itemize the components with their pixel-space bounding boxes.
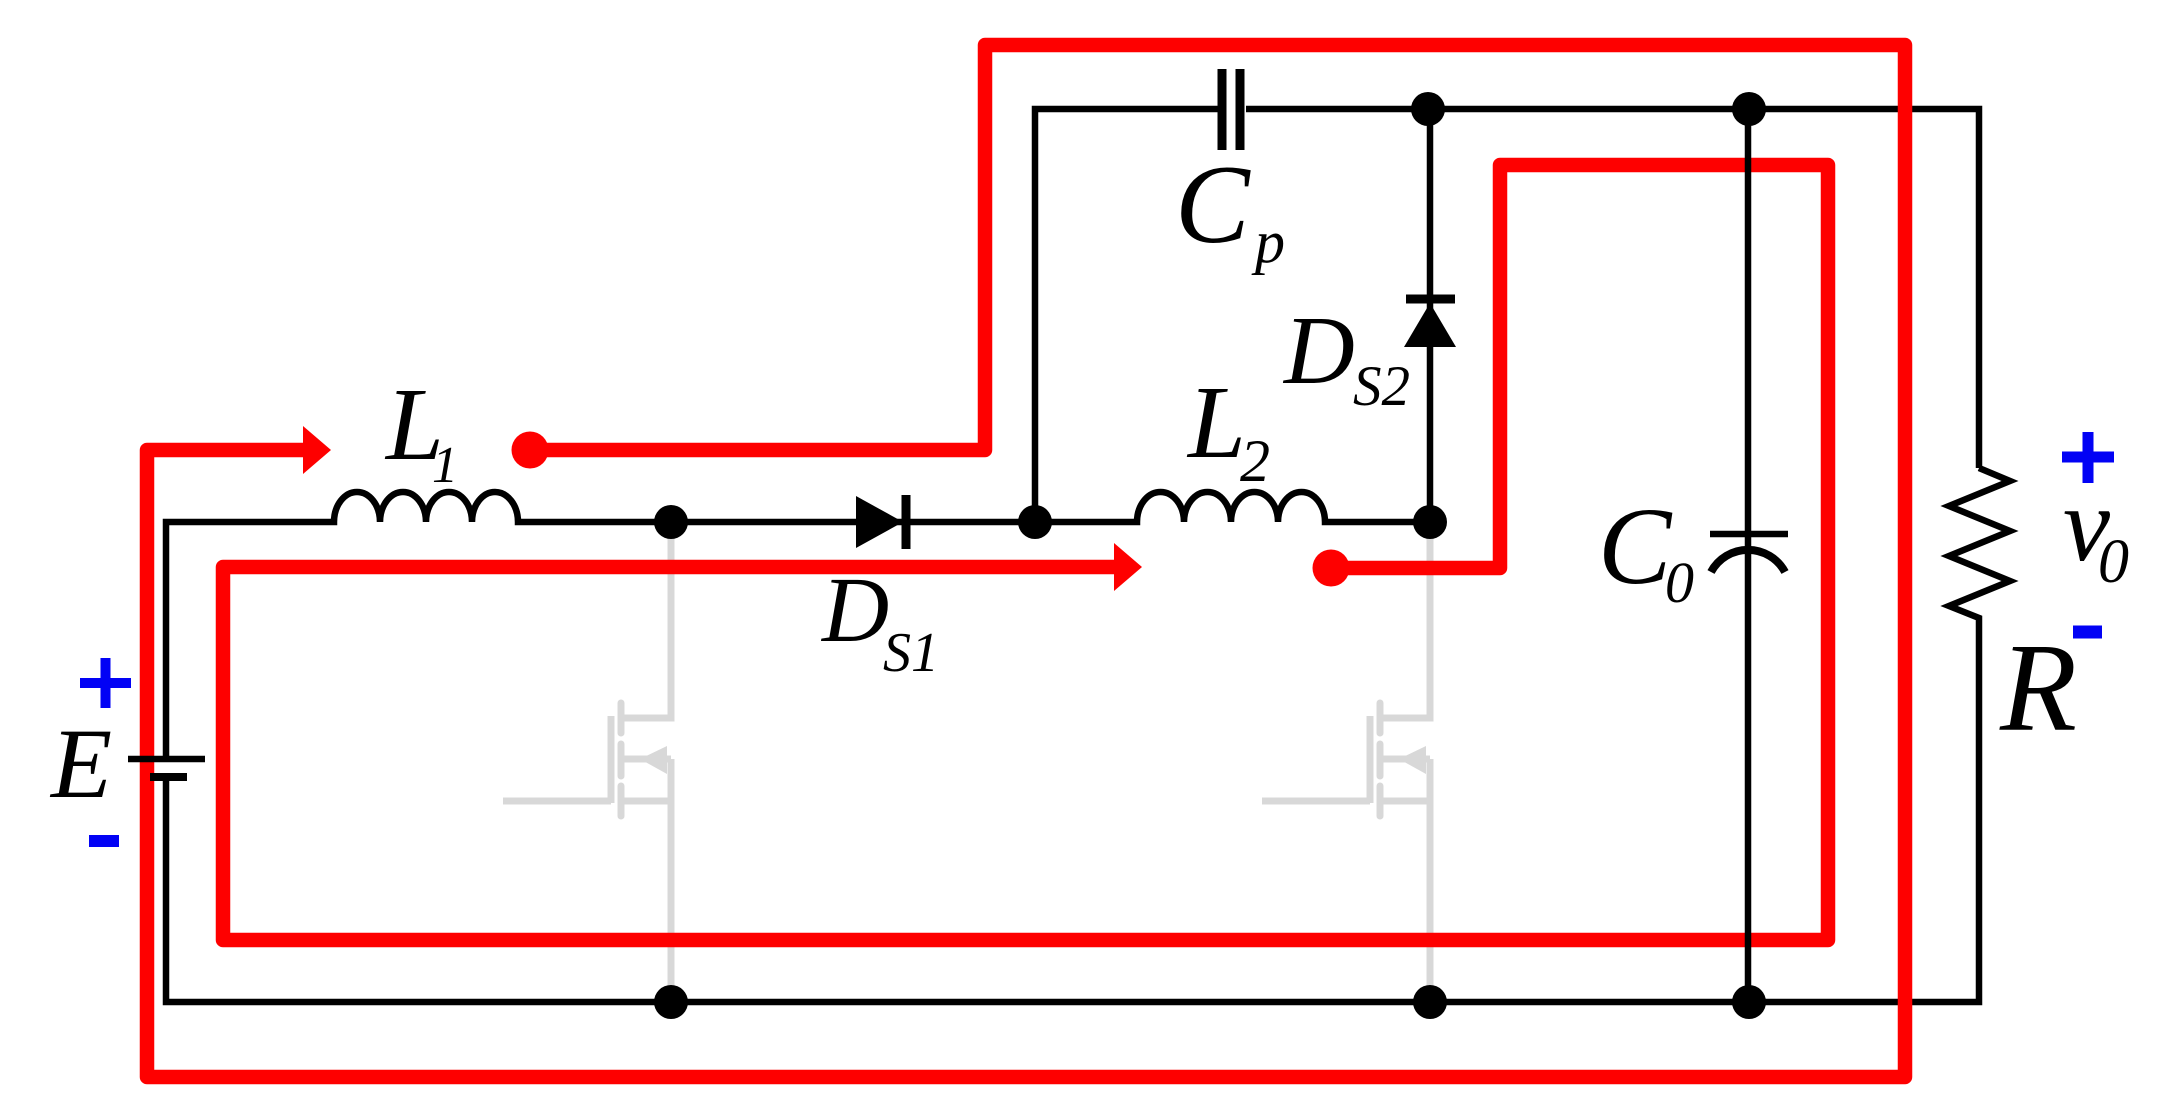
svg-text:R: R	[1999, 619, 2077, 758]
svg-text:0: 0	[2098, 528, 2129, 596]
svg-text:L: L	[1186, 365, 1246, 480]
svg-text:2: 2	[1240, 428, 1270, 494]
svg-text:C: C	[1175, 143, 1251, 267]
svg-text:S1: S1	[883, 622, 939, 684]
svg-text:D: D	[820, 559, 889, 662]
svg-text:S2: S2	[1353, 355, 1410, 418]
svg-text:C: C	[1598, 485, 1673, 607]
svg-text:p: p	[1251, 209, 1285, 275]
svg-text:E: E	[49, 708, 112, 819]
svg-text:D: D	[1282, 297, 1355, 405]
svg-text:0: 0	[1665, 550, 1694, 615]
svg-text:1: 1	[432, 437, 458, 494]
